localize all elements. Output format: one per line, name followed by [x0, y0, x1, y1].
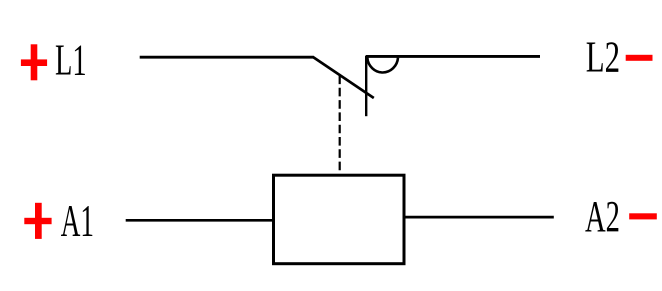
- wire L2 lead: [366, 55, 540, 58]
- wire A1 lead: [126, 219, 273, 222]
- wire L1 lead: [140, 56, 314, 59]
- polarity - at A2: [629, 213, 657, 219]
- svg-text:L1: L1: [55, 36, 87, 85]
- contact movable arm (NC blade): [313, 57, 374, 98]
- mechanical linkage (dashed): [339, 76, 341, 174]
- contact fixed terminal post: [365, 56, 367, 117]
- contact operating-head arc: [367, 58, 398, 73]
- polarity + at L1: [21, 44, 47, 80]
- polarity + at A1: [24, 203, 51, 239]
- wire A2 lead: [404, 216, 554, 219]
- svg-text:L2: L2: [586, 32, 620, 82]
- polarity - at L2: [626, 55, 653, 61]
- svg-text:A2: A2: [585, 191, 620, 241]
- svg-text:A1: A1: [61, 196, 94, 246]
- relay coil K1 (box): [274, 175, 405, 264]
